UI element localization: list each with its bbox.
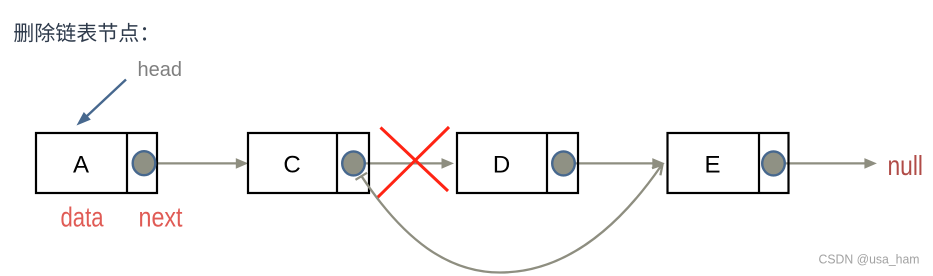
curved wire C.next to E (new link) — [356, 165, 663, 273]
head arrow — [77, 80, 127, 126]
red X deletion mark — [377, 127, 450, 199]
node E pointer oval — [762, 151, 785, 175]
svg-text:E: E — [704, 152, 720, 179]
wire A.next to C — [155, 158, 248, 169]
node E box border — [668, 133, 789, 193]
svg-text:data: data — [61, 202, 104, 233]
svg-text:null: null — [888, 150, 924, 181]
svg-text:next: next — [139, 202, 183, 233]
title 删除链表节点: — [14, 23, 146, 43]
node C pointer oval — [342, 151, 365, 175]
svg-text:head: head — [138, 59, 183, 81]
wire C.next to D (deleted link) — [364, 158, 454, 169]
node C box fill — [248, 133, 369, 193]
svg-text:C: C — [283, 152, 300, 179]
wire D.next to E — [574, 158, 665, 169]
node C box border — [248, 133, 369, 193]
wire E.next to null — [784, 158, 877, 169]
node D box fill — [457, 133, 578, 193]
svg-text:A: A — [73, 152, 89, 179]
node E box fill — [668, 133, 789, 193]
svg-text:D: D — [493, 152, 510, 179]
node A box fill — [36, 133, 157, 193]
node D pointer oval — [552, 151, 575, 175]
svg-text:CSDN @usa_ham: CSDN @usa_ham — [819, 252, 920, 267]
node D box border — [457, 133, 578, 193]
node A box border — [36, 133, 157, 193]
node A pointer oval — [133, 151, 156, 175]
